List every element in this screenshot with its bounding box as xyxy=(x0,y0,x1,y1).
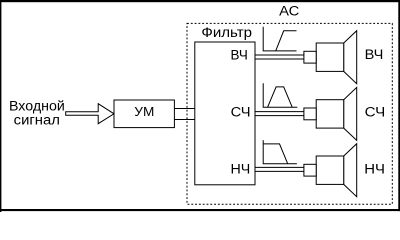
enclosure АС dashed box xyxy=(187,23,392,204)
speaker ВЧ xyxy=(304,31,357,84)
low-pass response icon xyxy=(263,140,297,164)
svg-text:УМ: УМ xyxy=(134,104,154,119)
wire УМ to filter (lower) xyxy=(174,119,194,121)
filter block Фильтр xyxy=(195,42,255,185)
wire filter to ВЧ speaker (pair) xyxy=(255,54,304,56)
input arrow xyxy=(66,104,114,124)
svg-text:НЧ: НЧ xyxy=(231,162,251,177)
svg-text:СЧ: СЧ xyxy=(365,105,386,120)
svg-text:Входной: Входной xyxy=(9,99,65,114)
svg-text:ВЧ: ВЧ xyxy=(231,47,248,62)
amplifier УМ box xyxy=(114,100,174,128)
svg-text:ВЧ: ВЧ xyxy=(365,47,384,62)
svg-text:АС: АС xyxy=(279,4,299,19)
svg-text:СЧ: СЧ xyxy=(231,105,251,120)
wire filter to СЧ speaker (pair) xyxy=(255,111,304,113)
wire filter to НЧ speaker (pair) xyxy=(255,166,304,168)
speaker СЧ xyxy=(304,87,357,140)
speaker НЧ xyxy=(304,144,357,197)
svg-text:НЧ: НЧ xyxy=(364,162,385,177)
high-pass response icon xyxy=(263,27,296,51)
svg-text:сигнал: сигнал xyxy=(14,112,60,127)
wire УМ to filter (upper) xyxy=(174,108,194,110)
band-pass response icon xyxy=(263,83,297,107)
svg-text:Фильтр: Фильтр xyxy=(201,25,252,40)
